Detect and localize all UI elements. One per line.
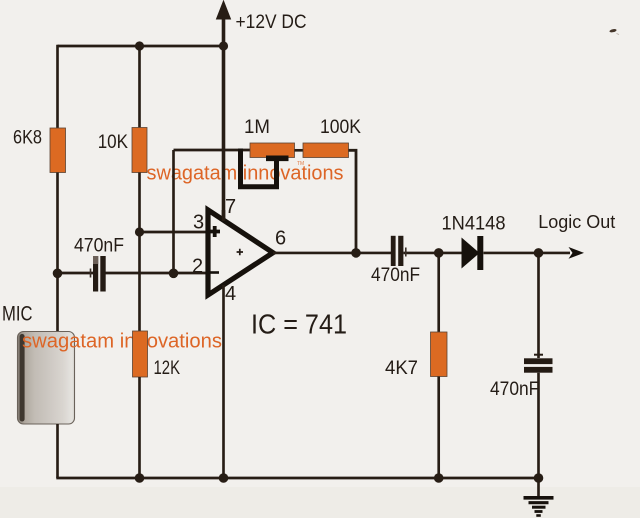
capacitor C3 470nF to ground (524, 358, 553, 372)
wire feedback vertical from pin2 node (172, 150, 175, 273)
C3 value label 470nF (490, 379, 539, 400)
pin 6 label (275, 228, 286, 250)
watermark swagatam innovations upper (147, 161, 344, 185)
resistor R3 1M (250, 143, 295, 158)
node junction +12V rail (219, 41, 228, 50)
wire feedback horizontal to 1M (174, 149, 251, 152)
watermark swagatam innovations lower (22, 331, 222, 353)
svg-text:3: 3 (193, 212, 204, 234)
resistor R6 12K (133, 331, 148, 377)
node junction feedback / pin2 row (169, 269, 179, 279)
svg-text:470nF: 470nF (490, 379, 539, 400)
op-amp minus input mark (209, 271, 219, 274)
1N4148 label (442, 213, 506, 234)
node junction logic out (534, 248, 544, 258)
wire input row (pin 2 row) (58, 272, 209, 275)
resistor R5 4K7 (431, 332, 448, 377)
microphone MIC body (18, 332, 75, 425)
pin 7 label (225, 196, 236, 218)
12K value label (154, 358, 181, 379)
op-amp U1 741 triangle (208, 210, 273, 295)
capacitor C1 470nF input (93, 256, 106, 292)
wire 4K7 branch lower (437, 377, 440, 479)
thick feedback loop around 1M (241, 149, 289, 187)
svg-text:1N4148: 1N4148 (442, 213, 506, 234)
op-amp plus input bold mark (210, 226, 221, 237)
node junction 4K7 branch (434, 248, 444, 258)
wire 10K vertical upper (138, 45, 141, 128)
capacitor C1 470nF polarity mark (90, 269, 92, 278)
node junction 4K7 bottom (434, 473, 444, 483)
svg-text:TM: TM (297, 161, 304, 167)
svg-text:6: 6 (275, 228, 286, 250)
+12V DC label (236, 12, 307, 33)
logic out arrow (569, 247, 585, 259)
wire op-amp pin 4 down (222, 285, 225, 478)
node junction ground (534, 473, 544, 483)
C1 value label 470nF (74, 235, 124, 256)
IC = 741 label (251, 309, 347, 340)
op-amp small center plus (237, 249, 243, 255)
pin 4 label (225, 283, 236, 305)
1M value label (244, 117, 270, 138)
wire 100K to output node (349, 150, 357, 253)
node junction left vertical / input row (53, 269, 63, 279)
wire cap to bottom rail (537, 373, 540, 497)
svg-text:+12V DC: +12V DC (236, 12, 307, 33)
capacitor C2 470nF output (391, 236, 404, 266)
wire below MIC (56, 424, 59, 478)
Logic Out label (538, 212, 615, 232)
svg-text:470nF: 470nF (74, 235, 124, 256)
4K7 value label (385, 358, 418, 379)
svg-text:6K8: 6K8 (13, 128, 42, 149)
svg-text:swagatam innovations: swagatam innovations (147, 163, 344, 185)
wire between 1M and 100K (295, 149, 304, 152)
+12V DC supply line (217, 1, 231, 220)
wire bottom ground rail (56, 477, 538, 480)
svg-text:100K: 100K (320, 117, 361, 138)
MIC label (2, 303, 33, 326)
svg-text:IC = 741: IC = 741 (251, 309, 347, 340)
pin 2 label (192, 256, 203, 278)
svg-text:4: 4 (225, 283, 236, 305)
svg-text:7: 7 (225, 196, 236, 218)
svg-text:Logic Out: Logic Out (538, 212, 615, 232)
wire top supply rail (58, 45, 224, 48)
node junction feedback/output (351, 248, 361, 258)
smudge top right (609, 28, 619, 34)
pin 3 label (193, 212, 204, 234)
svg-text:MIC: MIC (2, 303, 33, 326)
wire output cap branch upper (537, 253, 540, 358)
wire left vertical middle (56, 173, 59, 334)
resistor R4 100K (303, 143, 349, 158)
svg-text:1M: 1M (244, 117, 270, 138)
resistor R2 10K (132, 128, 147, 173)
background lower band (0, 487, 640, 518)
C3 polarity plus mark (534, 354, 543, 356)
svg-text:470nF: 470nF (371, 265, 420, 286)
ground symbol (524, 498, 554, 516)
C2 polarity mark (405, 248, 407, 257)
wire 12K lower (138, 377, 141, 478)
node junction pin3 wire (135, 227, 144, 236)
diode D1 1N4148 (462, 236, 484, 270)
node junction pin4 bottom (219, 473, 229, 483)
100K value label (320, 117, 361, 138)
node junction 10K top rail (135, 41, 144, 50)
10K value label (98, 132, 129, 153)
node junction 12K bottom (135, 473, 145, 483)
wire 4K7 branch upper (437, 253, 440, 332)
svg-text:2: 2 (192, 256, 203, 278)
svg-text:10K: 10K (98, 132, 129, 153)
wire to op-amp pin 3 (140, 231, 209, 234)
6K8 value label (13, 128, 42, 149)
wire output row from pin 6 (273, 252, 570, 255)
svg-text:swagatam innovations: swagatam innovations (22, 331, 222, 353)
wire 10K vertical lower to pin3 node and 12K (138, 173, 141, 334)
svg-text:12K: 12K (154, 358, 181, 379)
C2 value label 470nF (371, 265, 420, 286)
svg-text:4K7: 4K7 (385, 358, 418, 379)
wire left vertical 6K8 branch upper (56, 45, 59, 128)
wire op-amp pin 7 from rail (vertical through) (222, 210, 226, 221)
resistor R1 6K8 (50, 128, 66, 173)
